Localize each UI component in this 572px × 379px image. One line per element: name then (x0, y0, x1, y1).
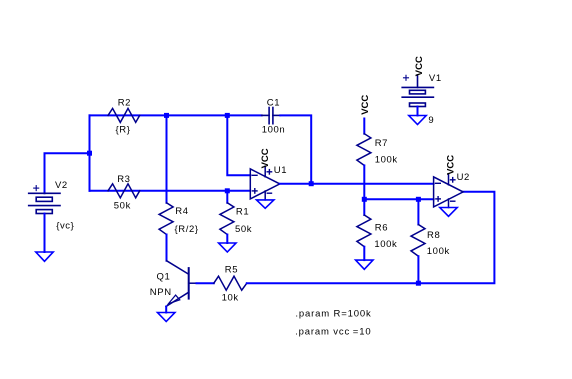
ground U2 (440, 208, 457, 217)
wire R6 to ground (363, 247, 365, 260)
svg-text:R2: R2 (118, 98, 131, 109)
svg-text:NPN: NPN (150, 287, 172, 298)
op-amp U1 (250, 166, 279, 200)
svg-text:.param R=100k: .param R=100k (295, 309, 371, 320)
node J2 (225, 113, 230, 118)
svg-text:R6: R6 (375, 222, 388, 233)
resistor R5 (214, 276, 247, 290)
svg-text:R3: R3 (117, 174, 130, 185)
svg-text:V1: V1 (429, 73, 442, 84)
wire R1 to ground (226, 235, 228, 244)
wire V1 to ground (417, 107, 419, 116)
svg-text:{vc}: {vc} (56, 221, 74, 232)
resistor R7 (357, 134, 371, 166)
node J6 (416, 197, 421, 202)
ground V2 (36, 252, 53, 261)
resistor R8 (417, 199, 419, 224)
node J0 (164, 113, 169, 118)
wire R7 to J5 (363, 165, 365, 199)
svg-text:50k: 50k (114, 200, 131, 211)
wire bottom rail (247, 192, 495, 283)
svg-text:100k: 100k (427, 246, 450, 257)
battery V2 (29, 186, 60, 214)
wire R7 column (363, 119, 365, 134)
svg-text:R4: R4 (175, 206, 188, 217)
wire R4 to Q1 collector (166, 235, 168, 261)
svg-text:{R/2}: {R/2} (175, 224, 199, 235)
battery V1 (402, 75, 433, 107)
svg-text:50k: 50k (235, 224, 252, 235)
svg-text:V2: V2 (55, 180, 68, 191)
svg-text:R5: R5 (225, 265, 238, 276)
node J5 (362, 197, 367, 202)
wire left vertical rail (89, 115, 91, 190)
ground U1 (257, 200, 274, 208)
svg-text:100k: 100k (374, 239, 397, 250)
wire U1 minus drop (227, 115, 250, 175)
svg-text:100n: 100n (262, 125, 286, 136)
wire U1 output rail (280, 183, 434, 185)
wire R3 rail (90, 190, 251, 192)
svg-text:10k: 10k (222, 293, 239, 304)
resistor R4 (159, 203, 173, 235)
resistor R2 (108, 108, 140, 122)
svg-text:9: 9 (428, 115, 434, 126)
node J7 (416, 281, 421, 286)
svg-text:VCC: VCC (360, 95, 371, 115)
transistor Q1 (166, 261, 197, 307)
ground Q1 (158, 313, 175, 322)
node J4 (309, 181, 314, 186)
wire R4 drop from R2 rail (166, 115, 168, 202)
wire C1 to output rail (280, 115, 311, 183)
wire R8 to bottom rail (417, 256, 419, 283)
ground R1 (219, 243, 236, 252)
wire V2 top to left rail (45, 153, 90, 193)
svg-text:R7: R7 (375, 138, 388, 149)
svg-text:C1: C1 (267, 98, 280, 109)
svg-text:{R}: {R} (116, 125, 131, 136)
svg-text:100k: 100k (375, 154, 398, 165)
svg-text:VCC: VCC (414, 56, 425, 76)
resistor R3 (108, 184, 140, 198)
svg-text:R8: R8 (427, 230, 440, 241)
wire Q1 emitter to ground (165, 307, 167, 313)
node J1 (87, 151, 92, 156)
svg-text:.param vcc =10: .param vcc =10 (295, 327, 371, 338)
svg-text:VCC: VCC (260, 148, 271, 168)
ground V1 (409, 116, 426, 125)
wire V2 bottom to ground (44, 214, 46, 253)
svg-text:Q1: Q1 (157, 272, 171, 283)
resistor R6 (363, 199, 365, 215)
svg-text:VCC: VCC (445, 155, 456, 175)
wire R1 stub (226, 191, 228, 203)
wire lower rail to U2 plus (364, 198, 433, 200)
node J3 (225, 188, 230, 193)
capacitor C1 (262, 108, 281, 124)
svg-text:U1: U1 (274, 165, 287, 176)
op-amp U2 (434, 174, 464, 207)
wire Q1 base to R5 (197, 282, 214, 284)
ground R6 (356, 260, 373, 269)
wire R2 rail (90, 114, 262, 116)
svg-text:U2: U2 (457, 172, 470, 183)
resistor R1 (220, 203, 234, 235)
svg-text:R1: R1 (236, 206, 249, 217)
